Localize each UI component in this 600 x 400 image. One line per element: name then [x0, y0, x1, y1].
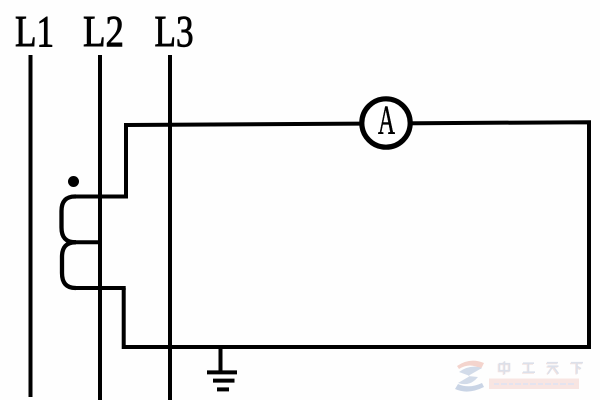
- svg-text:L1: L1: [15, 7, 54, 56]
- svg-text:A: A: [378, 97, 395, 143]
- svg-text:L3: L3: [155, 7, 194, 56]
- svg-text:L2: L2: [83, 7, 124, 56]
